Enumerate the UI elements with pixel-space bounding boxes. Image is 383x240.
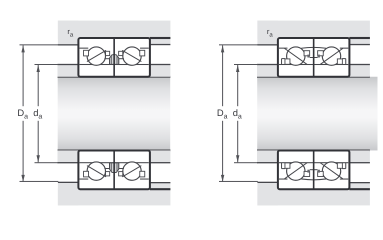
da arrows (right figure) — [236, 65, 239, 72]
upper right ball contact angle line (right figure) — [320, 49, 342, 65]
lower right ball (right figure) — [322, 162, 340, 180]
lower left inner ring face step (right figure) — [310, 169, 314, 170]
shaft lower left shoulder edge line (left figure) — [58, 162, 79, 163]
lower right ball (left figure) — [123, 162, 141, 180]
da dimension leader lower (right figure) — [234, 162, 258, 163]
Da dimension line (right figure) — [222, 45, 223, 106]
spacer ring lower right edge line (right figure) — [349, 162, 370, 163]
lower right inboard cage pocket (left figure) — [119, 172, 123, 176]
lower right inboard cage shading (right figure) — [318, 170, 320, 173]
upper right inboard cage shading (right figure) — [318, 55, 320, 58]
lower left inner ring face step (left figure) — [104, 168, 109, 169]
svg-text:da: da — [33, 107, 42, 120]
housing bore line right extension upper (left figure) — [150, 37, 171, 39]
Da dimension line (left figure) — [23, 45, 24, 106]
upper left ball contact angle line (left figure) — [87, 51, 105, 62]
lower bearing pair centre junction line (right figure) — [313, 151, 315, 190]
housing upper right step (right figure) — [349, 38, 370, 45]
housing upper left shoulder Da abutment (left figure) — [58, 21, 79, 45]
lower outer ring bore line outboard right (left figure) — [140, 179, 149, 180]
da dimension leader upper (right figure) — [234, 64, 258, 65]
upper bearing pair outline (left figure) — [78, 38, 149, 77]
housing lower band (left figure) — [58, 188, 170, 205]
housing upper right step edge line (left figure) — [150, 44, 171, 45]
housing lower left shoulder edge line (right figure) — [257, 182, 278, 183]
housing lower left shoulder Da abutment (left figure) — [58, 182, 79, 205]
upper outer ring bore line outboard left (right figure) — [279, 48, 287, 49]
shaft (right figure) — [257, 77, 377, 151]
lower inner ring clamp spacer (left figure) — [110, 163, 119, 173]
housing upper left shoulder edge line (left figure) — [58, 44, 79, 45]
upper bearing pair centre junction line (right figure) — [313, 38, 315, 77]
upper inner ring shoulder line (left figure) — [80, 64, 149, 65]
da arrows (left figure) — [37, 65, 40, 72]
housing upper band (left figure) — [58, 21, 170, 39]
lower right inner ring face step (right figure) — [314, 169, 318, 170]
svg-text:Da: Da — [217, 107, 228, 120]
housing lower right step edge line (right figure) — [349, 182, 370, 183]
spacer ring lower right (left figure) — [150, 150, 171, 162]
housing lower right step (right figure) — [349, 183, 370, 190]
upper outer ring bore line outboard left (left figure) — [80, 48, 89, 49]
svg-text:da: da — [233, 107, 242, 120]
upper left outboard cage pocket (right figure) — [285, 59, 290, 64]
upper left inner ring face step (right figure) — [310, 57, 314, 58]
shaft lower left shoulder edge line (right figure) — [257, 162, 278, 163]
da dimension line (left figure) — [38, 65, 39, 106]
shaft lower left shoulder da abutment (right figure) — [257, 150, 278, 162]
housing lower left shoulder edge line (left figure) — [58, 182, 79, 183]
shaft upper left shoulder edge line (right figure) — [257, 64, 278, 65]
housing lower band (right figure) — [257, 188, 370, 205]
Da dimension leader lower (left figure) — [20, 181, 59, 182]
lower left ball contact angle line (right figure) — [285, 163, 307, 179]
Da arrows (left figure) — [21, 45, 24, 52]
housing upper band (right figure) — [257, 21, 370, 39]
housing bore line right extension lower (left figure) — [150, 188, 171, 190]
shaft upper left shoulder da abutment (left figure) — [58, 65, 79, 77]
upper inner ring clamp spacer hatching (left figure) — [110, 55, 113, 64]
lower outer ring bore line outboard left (right figure) — [279, 179, 287, 180]
lower outer ring bore line outboard right (right figure) — [340, 179, 348, 180]
housing lower left shoulder Da abutment (right figure) — [257, 182, 278, 205]
upper inner ring shoulder line (right figure) — [279, 64, 348, 65]
shaft lower seat line (right figure) — [257, 150, 370, 152]
lower right outboard cage pocket (right figure) — [337, 163, 342, 168]
lower right inner ring face step outboard (right figure) — [342, 168, 346, 169]
lower left outboard cage pocket (right figure) — [285, 163, 290, 168]
upper right inner ring face step outboard (right figure) — [342, 58, 346, 59]
upper right ball (left figure) — [123, 47, 141, 65]
upper right ball contact angle line (left figure) — [123, 51, 141, 62]
Da arrows (right figure) — [221, 45, 224, 52]
upper right inner ring face step (right figure) — [314, 57, 318, 58]
shaft upper seat line (right figure) — [257, 76, 370, 78]
upper left inner ring face step (left figure) — [104, 58, 109, 59]
upper outer ring bore line outboard right (left figure) — [140, 48, 149, 49]
upper bearing pair outline (right figure) — [278, 38, 350, 77]
da dimension line (right figure) — [237, 65, 238, 106]
housing upper left shoulder edge line (right figure) — [257, 44, 278, 45]
shaft (left figure) — [58, 77, 171, 151]
spacer ring upper right edge line (right figure) — [349, 64, 370, 65]
spacer ring upper right (right figure) — [349, 65, 370, 77]
lower right ball contact angle line (right figure) — [320, 163, 342, 179]
upper left ball contact angle line (right figure) — [285, 49, 307, 65]
housing bore line right extension lower (right figure) — [349, 188, 370, 190]
housing upper left shoulder Da abutment (right figure) — [257, 21, 278, 45]
lower left ball (left figure) — [87, 162, 105, 180]
upper right inboard cage pocket (left figure) — [119, 51, 123, 55]
upper right inboard cage pocket (right figure) — [318, 51, 324, 56]
lower right ball contact angle line (left figure) — [123, 166, 141, 177]
upper left inboard cage pocket (left figure) — [106, 51, 110, 55]
housing upper right step edge line (right figure) — [349, 44, 370, 45]
lower inner ring clamp spacer hatching (left figure) — [110, 163, 113, 172]
lower right inboard cage pocket (right figure) — [318, 171, 324, 176]
upper left inboard cage shading (right figure) — [307, 55, 309, 58]
housing lower right step (left figure) — [150, 183, 171, 190]
upper right inner ring face step (left figure) — [119, 58, 124, 59]
lower left inboard cage pocket (left figure) — [106, 172, 110, 176]
shaft upper left shoulder da abutment (right figure) — [257, 65, 278, 77]
shaft lower seat line (left figure) — [58, 150, 171, 152]
upper right outboard cage pocket (left figure) — [140, 50, 145, 56]
da dimension leader upper (left figure) — [35, 64, 59, 65]
upper left ball (right figure) — [287, 47, 305, 65]
upper left outboard cage pocket (left figure) — [84, 50, 89, 56]
upper left ball (left figure) — [87, 47, 105, 65]
spacer ring upper right (left figure) — [150, 65, 171, 77]
lower outer ring abutting faces arc (right figure) — [301, 178, 326, 181]
upper right outboard cage pocket (right figure) — [337, 59, 342, 64]
upper outer ring abutting faces arc (right figure) — [301, 46, 326, 49]
Da dimension leader upper (right figure) — [219, 44, 258, 45]
lower bearing pair centre junction line (left figure) — [113, 151, 115, 190]
lower right outboard cage pocket (left figure) — [140, 171, 145, 177]
upper inner ring clamp spacer (left figure) — [110, 54, 119, 64]
lower left inner ring face step outboard (right figure) — [282, 168, 286, 169]
lower bearing pair outline (right figure) — [278, 151, 350, 190]
shaft lower left shoulder da abutment (left figure) — [58, 150, 79, 162]
upper left inboard cage pocket (right figure) — [304, 51, 310, 56]
housing bore line right extension upper (right figure) — [349, 37, 370, 39]
Da dimension leader upper (left figure) — [20, 44, 59, 45]
spacer ring lower right (right figure) — [349, 150, 370, 162]
da dimension leader lower (left figure) — [35, 162, 59, 163]
shaft upper left shoulder edge line (left figure) — [58, 64, 79, 65]
lower left inboard cage shading (right figure) — [307, 170, 309, 173]
spacer ring lower right edge line (left figure) — [150, 162, 171, 163]
housing lower right step edge line (left figure) — [150, 182, 171, 183]
shaft upper seat line (left figure) — [58, 76, 171, 78]
upper bearing pair centre junction line (left figure) — [113, 38, 115, 77]
housing upper right step (left figure) — [150, 38, 171, 45]
lower right inner ring face step (left figure) — [119, 168, 124, 169]
upper left inner ring face step outboard (right figure) — [282, 58, 286, 59]
upper right ball (right figure) — [322, 47, 340, 65]
svg-text:Da: Da — [17, 107, 28, 120]
lower outer ring bore line outboard left (left figure) — [80, 179, 89, 180]
lower left ball contact angle line (left figure) — [87, 166, 105, 177]
lower left inboard cage pocket (right figure) — [304, 171, 310, 176]
lower left outboard cage pocket (left figure) — [84, 171, 89, 177]
upper outer ring bore line outboard right (right figure) — [340, 48, 348, 49]
spacer ring upper right edge line (left figure) — [150, 64, 171, 65]
lower bearing pair outline (left figure) — [78, 151, 149, 190]
lower inner ring shoulder line (right figure) — [279, 162, 348, 163]
lower left ball (right figure) — [287, 162, 305, 180]
Da dimension leader lower (right figure) — [219, 181, 258, 182]
lower inner ring shoulder line (left figure) — [80, 162, 149, 163]
